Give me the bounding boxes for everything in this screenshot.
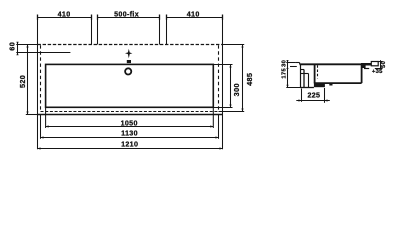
extension line fixing hole left b bbox=[97, 15, 99, 45]
centering cross vertical bbox=[128, 49, 130, 58]
520 dim line bbox=[27, 45, 29, 115]
1050 dim left extension bbox=[45, 108, 47, 129]
front view: hidden outline right (dashed vertical) bbox=[218, 45, 220, 111]
side 30/175 extension top bbox=[286, 62, 295, 64]
front view: basin inner rectangle bbox=[46, 64, 214, 107]
485 dim extension top bbox=[223, 44, 245, 46]
side view: rim top bbox=[300, 63, 371, 65]
520 dim arrows bbox=[26, 45, 28, 115]
svg-text:1210: 1210 bbox=[121, 140, 138, 148]
side 30/175 arrows bbox=[286, 60, 288, 88]
1130 dim right extension bbox=[218, 115, 220, 139]
svg-text:+35: +35 bbox=[372, 69, 383, 75]
extension line fixing hole right a bbox=[159, 15, 161, 45]
60 dim line bbox=[17, 42, 19, 55]
svg-text:500-fix: 500-fix bbox=[114, 11, 139, 19]
side 225 dim line bbox=[296, 100, 330, 102]
front view: outer right edge / extension line bbox=[222, 15, 224, 150]
centering cross horizontal bbox=[125, 52, 132, 54]
side view: bowl back wall bbox=[314, 65, 316, 83]
300 dim extension top bbox=[213, 64, 232, 66]
svg-text:50: 50 bbox=[381, 61, 387, 68]
side view: front edge thick block top bar bbox=[361, 63, 371, 66]
300 dim extension bottom bbox=[213, 107, 232, 109]
side view: bracket top bbox=[301, 73, 309, 75]
svg-text:1130: 1130 bbox=[121, 130, 138, 138]
top dimension chain line 410 left bbox=[38, 17, 92, 19]
side view: 30 dim lower reference bbox=[290, 66, 297, 68]
side view: back outer wall bbox=[300, 64, 302, 87]
front view: hidden outline left (dashed vertical) bbox=[40, 45, 42, 111]
svg-text:60: 60 bbox=[7, 42, 16, 51]
side view: back upstand right bbox=[299, 63, 301, 65]
1130 dim left extension bbox=[40, 115, 42, 139]
side view: support pad bbox=[314, 83, 325, 87]
1050 dim arrows bbox=[46, 125, 214, 127]
side view: front wall bbox=[361, 64, 363, 83]
svg-text:520: 520 bbox=[18, 75, 27, 88]
1130 dim line bbox=[41, 137, 219, 139]
side view: front edge block left drop bbox=[361, 66, 366, 69]
side view: tap axis (dashed) bbox=[317, 65, 319, 78]
60 dim arrows bbox=[16, 42, 18, 55]
svg-text:300: 300 bbox=[232, 83, 241, 96]
front view: short ledge line at left (60 ref) bbox=[16, 52, 70, 54]
svg-text:1050: 1050 bbox=[121, 120, 138, 128]
extension line fixing hole left a bbox=[91, 15, 93, 45]
side view: bowl bottom bbox=[314, 82, 362, 84]
side 30/175 dim line bbox=[287, 60, 289, 87]
300 dim line bbox=[230, 65, 232, 108]
1210 dim line bbox=[38, 148, 223, 150]
top dimension chain line 500-fix bbox=[98, 17, 160, 19]
extension line fixing hole right b bbox=[166, 15, 168, 45]
side 175 extension bottom bbox=[286, 87, 307, 89]
side 50 dim tick bottom bbox=[375, 68, 383, 70]
front view: top edge (dashed) bbox=[38, 44, 223, 46]
485 dim arrows bbox=[241, 45, 243, 112]
svg-text:485: 485 bbox=[245, 73, 254, 86]
1130 dim arrows bbox=[41, 136, 219, 138]
520 bottom extension bbox=[26, 114, 38, 116]
300 dim arrows bbox=[229, 65, 231, 108]
svg-text:410: 410 bbox=[187, 11, 200, 19]
side view: towel rail cross-section bbox=[371, 62, 378, 66]
side view: back wall step bbox=[301, 69, 305, 71]
side view: drip hook bottom stroke bbox=[364, 68, 369, 70]
side 50 dim tick top bbox=[377, 61, 382, 63]
svg-text:225: 225 bbox=[307, 92, 320, 100]
side view: back inner wall bbox=[303, 70, 305, 88]
tick marks top chain bbox=[38, 15, 223, 20]
60 dim extension top bbox=[16, 44, 37, 46]
side view: back upstand top bbox=[295, 62, 299, 64]
front view: outer left edge / extension line bbox=[37, 15, 39, 150]
side 225 arrows (outward) bbox=[299, 99, 328, 101]
front view: hidden bottom edge (dashed) bbox=[41, 111, 219, 113]
tap hole circle bbox=[125, 68, 131, 74]
side view: bracket right bbox=[308, 74, 310, 88]
svg-text:30: 30 bbox=[281, 60, 287, 67]
1050 dim line bbox=[46, 126, 214, 128]
front view: bottom edge (solid) bbox=[38, 114, 223, 116]
side 225 left extension bbox=[301, 89, 303, 102]
side view: pad step bbox=[329, 83, 332, 86]
1210 dim arrows bbox=[38, 147, 223, 149]
svg-text:410: 410 bbox=[58, 11, 71, 19]
side view: bracket bottom bbox=[300, 87, 314, 89]
top dimension chain line 410 right bbox=[167, 17, 223, 19]
1050 dim right extension bbox=[212, 108, 214, 129]
485 dim extension bottom bbox=[219, 111, 245, 113]
side 225 right extension bbox=[324, 88, 326, 103]
svg-text:175: 175 bbox=[281, 68, 287, 79]
485 dim line bbox=[242, 45, 244, 112]
tap marker square bbox=[127, 60, 131, 63]
side 50 dim line bbox=[380, 60, 382, 69]
